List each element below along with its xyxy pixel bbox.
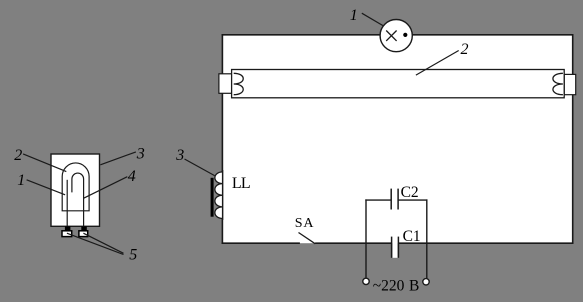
capacitor C1	[392, 237, 399, 258]
pin cap left	[62, 231, 72, 237]
leader line from pin cap left to label 5	[67, 233, 124, 254]
pin stub left	[65, 226, 71, 231]
C2 plate left	[390, 189, 392, 210]
svg-text:3: 3	[136, 146, 145, 163]
svg-text:1: 1	[17, 172, 25, 189]
choke inductor LL on left edge	[211, 170, 223, 220]
starter lamp symbol SF (label 1)	[380, 19, 412, 51]
C2 plate right	[397, 189, 399, 210]
switch SA blade	[299, 233, 316, 244]
wire right vertical to terminal	[426, 199, 428, 278]
leader line to corpus	[100, 152, 135, 165]
pin stub right	[81, 226, 87, 231]
leader line to bulb	[23, 154, 66, 172]
coil lobes	[215, 172, 223, 219]
wire bottom edge segment: right corner to capacitor C1	[398, 242, 573, 244]
svg-text:C1: C1	[403, 228, 421, 245]
wire right edge	[572, 34, 574, 244]
C1 plate right	[397, 237, 399, 258]
filament electrode right	[553, 73, 563, 94]
leader line to tube	[416, 51, 459, 76]
svg-text:~220: ~220	[373, 278, 405, 295]
svg-text:1: 1	[350, 7, 358, 24]
pin cap right	[79, 231, 88, 237]
leader line to starter symbol	[362, 13, 384, 26]
wire top horizontal left of C2	[365, 199, 391, 201]
starter glass bulb	[62, 163, 89, 211]
starter cross stroke 2	[386, 31, 396, 41]
leader line from pin cap right to label 5	[83, 233, 123, 253]
wire bottom edge segment: capacitor C1 to switch contact	[315, 242, 391, 244]
wire left vertical to terminal	[365, 199, 367, 277]
source terminal right	[423, 279, 429, 285]
straight electrode	[66, 180, 68, 227]
wire top edge	[222, 34, 574, 36]
core bar	[211, 178, 214, 217]
leader line to electrode	[27, 180, 66, 195]
capacitor C2	[391, 189, 398, 210]
wire bottom edge segment: switch pivot to left corner	[222, 242, 300, 244]
wire top horizontal right of C2	[398, 199, 427, 201]
svg-text:2: 2	[14, 147, 22, 164]
tube pin cap right	[564, 74, 576, 94]
C1 plate left	[391, 237, 393, 258]
svg-text:5: 5	[129, 247, 137, 264]
wiring loop rectangle (white interior)	[223, 35, 573, 243]
starter cross stroke 1	[386, 31, 396, 41]
svg-text:LL: LL	[232, 175, 250, 192]
leader line to choke	[185, 159, 215, 176]
filament electrode left	[234, 73, 244, 94]
svg-text:4: 4	[128, 168, 136, 185]
C1 dielectric gap	[392, 237, 397, 258]
svg-text:SA: SA	[295, 216, 315, 231]
svg-text:3: 3	[175, 147, 184, 164]
wire left edge	[221, 34, 223, 244]
svg-text:В: В	[409, 278, 419, 295]
starter bulb circle	[380, 19, 412, 51]
starter contact dot	[403, 33, 407, 37]
starter corpus (housing)	[51, 154, 100, 226]
svg-text:C2: C2	[401, 184, 419, 201]
capacitor branch wires	[365, 199, 427, 278]
fluorescent tube lamp EL (label 2)	[219, 70, 576, 98]
bimetallic U electrode	[72, 173, 84, 227]
wire left edge re-stroke over coil	[222, 170, 224, 220]
tube bulb	[232, 70, 565, 98]
leader line to bimetallic electrode	[84, 177, 128, 199]
svg-text:2: 2	[461, 41, 469, 58]
source terminal left	[363, 278, 369, 284]
tube pin cap left	[219, 74, 232, 94]
